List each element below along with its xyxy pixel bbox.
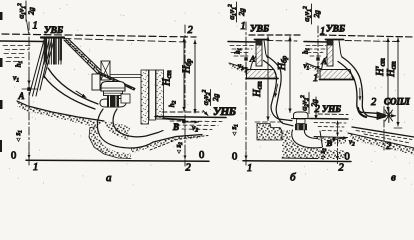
velocity head fraction fig v intake — [302, 4, 321, 24]
point B fig a — [182, 120, 186, 124]
z2 label fig b — [319, 148, 329, 155]
svg-text:Hбр: Hбр — [277, 55, 289, 71]
foundation stipple under powerhouse fig a — [104, 121, 130, 140]
tailwater energy line (dashed) fig a — [162, 111, 203, 113]
UNB water line fig b — [310, 118, 348, 121]
svg-text:2g: 2g — [237, 8, 246, 16]
z1 elevation label fig a — [14, 130, 24, 136]
intake base slab fig v — [320, 70, 353, 80]
datum arrowheads fig a — [28, 150, 30, 159]
H'st dimension fig v — [387, 38, 389, 111]
intake tower fig v — [326, 39, 344, 41]
tailrace wall right (stippled) fig a — [156, 70, 164, 119]
section line 1-1 fig b — [245, 22, 247, 165]
svg-text:а: а — [106, 172, 112, 184]
svg-text:A: A — [18, 91, 25, 101]
UVB level dashed extension fig a — [64, 39, 186, 43]
apron slope to powerhouse fig a — [97, 72, 135, 90]
Hst dimension fig v — [397, 38, 399, 126]
z1 label fig b — [230, 124, 240, 130]
foundation stipple blocks fig b — [257, 124, 282, 141]
energy line (dashed) fig b — [249, 34, 301, 36]
intake base slab fig b — [247, 70, 278, 79]
datum line 0-0 fig a — [26, 160, 209, 161]
velocity head fraction a2v2^2/2g fig a — [201, 89, 220, 105]
turbine runner fig a — [107, 95, 119, 108]
downstream face stipple band fig a — [64, 39, 101, 74]
riverbed fig v — [306, 63, 321, 69]
svg-text:v2: v2 — [192, 123, 198, 134]
outlet mouth edge fig b — [320, 131, 323, 147]
datum line 0-0 fig b — [243, 160, 351, 163]
water hatching fig b — [230, 46, 254, 57]
tick at Hst arrow fig v — [394, 127, 402, 129]
svg-text:1: 1 — [241, 21, 246, 32]
velocity head fraction a2 fig b — [300, 93, 319, 114]
svg-text:0: 0 — [199, 150, 204, 161]
jet star fig v — [384, 109, 396, 123]
machine hall roof lines fig a — [111, 75, 142, 78]
v1 arrow fig a — [28, 74, 30, 85]
penstock in dam fig a — [44, 68, 98, 109]
penstock fig b — [267, 56, 293, 126]
headwater line fig v — [304, 41, 329, 44]
tick at H'st arrow fig v — [385, 112, 392, 114]
nozzle cone fig v — [377, 112, 386, 120]
svg-text:Hст: Hст — [252, 81, 264, 97]
water hatching upstream fig a — [3, 46, 30, 62]
UVB level dashed fig v — [345, 41, 399, 42]
svg-text:z1: z1 — [14, 130, 24, 136]
svg-text:1: 1 — [247, 163, 252, 174]
draft tube fig b — [292, 130, 322, 148]
svg-text:α1v12: α1v12 — [227, 4, 238, 20]
riverbed stipple band fig a — [17, 101, 97, 127]
flow arrow in penstock fig b — [275, 84, 278, 97]
turbine unit fig b — [294, 112, 309, 119]
section line 2-2 lower fig b — [337, 139, 339, 166]
svg-text:2: 2 — [188, 25, 194, 36]
Hbr dimension fig b — [289, 37, 291, 113]
headwater surface line fig a — [0, 40, 44, 43]
stipple under draft tube fig a — [131, 135, 202, 154]
arrow from energy line to UNB fig a — [203, 111, 208, 116]
svg-text:α2v22: α2v22 — [201, 89, 212, 105]
v2 arrow fig a — [187, 121, 199, 123]
svg-text:2g: 2g — [312, 10, 321, 18]
svg-text:A: A — [249, 55, 255, 64]
svg-text:в: в — [391, 172, 396, 184]
point A fig b — [244, 57, 247, 60]
tailrace wall left (stippled) fig a — [141, 70, 149, 124]
Hbr dimension fig a — [194, 40, 196, 113]
stipple under bed fig v — [348, 133, 414, 155]
gate slot fig a — [149, 70, 156, 120]
svg-text:1: 1 — [33, 21, 38, 32]
energy line (dashed) fig v — [320, 35, 414, 37]
turbine axis dashes fig b — [255, 121, 284, 123]
upstream riverbed line fig a — [17, 101, 104, 121]
svg-text:B: B — [172, 122, 179, 132]
svg-text:Hбр: Hбр — [182, 58, 194, 74]
scan speckle — [2, 5, 412, 185]
svg-text:z1: z1 — [230, 124, 240, 130]
section line 1-1 fig a — [28, 22, 30, 165]
point A fig v — [316, 57, 319, 60]
riverbed dotted line right fig a — [150, 136, 208, 151]
svg-text:α1v12: α1v12 — [302, 6, 313, 22]
v1 arrow fig v — [317, 62, 319, 70]
section tick at 2 fig b — [315, 97, 317, 119]
svg-text:2g: 2g — [211, 94, 220, 102]
generator box fig a — [104, 91, 123, 96]
point A fig a — [27, 87, 31, 91]
gate hoist tower on dam face fig a — [101, 61, 110, 80]
velocity head fraction a1v1^2/2g fig a — [17, 1, 36, 29]
svg-text:B: B — [326, 138, 333, 148]
velocity head fraction fig b intake — [227, 2, 246, 22]
dam upstream face fan lines fig a — [29, 40, 54, 96]
svg-text:h2: h2 — [167, 101, 178, 108]
svg-text:2g: 2g — [27, 7, 36, 15]
energy line (dashed) fig a — [2, 34, 196, 37]
svg-text:h1: h1 — [302, 48, 312, 54]
dam crest gate columns fig a — [43, 39, 63, 65]
tailwater surface fig v — [352, 127, 414, 137]
water hatching fig v — [306, 46, 326, 57]
dam crest fig a — [41, 36, 64, 38]
svg-text:v1: v1 — [13, 73, 19, 84]
tailwater hatching fig b — [314, 123, 346, 132]
svg-text:2: 2 — [371, 97, 377, 108]
tailwater bed fig v — [348, 133, 414, 148]
section line 1-1 fig v — [317, 26, 319, 78]
svg-text:1: 1 — [320, 26, 325, 37]
svg-text:α1v12: α1v12 — [17, 3, 28, 19]
svg-text:1: 1 — [33, 162, 38, 173]
svg-text:УВБ: УВБ — [44, 26, 63, 36]
outlet roof line fig a — [163, 119, 184, 120]
UNB water line fig a — [155, 117, 226, 118]
Hst dimension fig a — [183, 38, 185, 111]
dam downstream face fig a — [64, 39, 101, 73]
svg-text:H′ст: H′ст — [375, 58, 387, 77]
riverbed fig b — [229, 63, 249, 70]
penstock fig v — [342, 57, 377, 118]
svg-text:1: 1 — [313, 73, 318, 84]
tail energy dashes fig b — [318, 113, 348, 116]
v2 arrow fig b — [337, 138, 348, 140]
svg-text:УНБ: УНБ — [213, 106, 236, 118]
svg-text:z2: z2 — [175, 142, 185, 149]
svg-text:2g: 2g — [310, 99, 319, 107]
svg-text:УНБ: УНБ — [322, 104, 341, 114]
pier block fig a — [92, 74, 100, 90]
lead line below fraction fig a — [27, 20, 29, 33]
page edge smudges — [0, 12, 3, 152]
svg-text:2: 2 — [339, 163, 345, 174]
tailwater hatching fig a — [170, 121, 222, 130]
v1 arrow fig b — [245, 62, 247, 71]
scroll case wings fig a — [100, 98, 126, 107]
UVB level dashed fig b — [267, 40, 297, 43]
svg-text:УВБ: УВБ — [250, 25, 269, 35]
svg-text:УВБ: УВБ — [326, 25, 345, 35]
heavy bend shading fig v — [358, 108, 366, 117]
svg-text:α2v22: α2v22 — [300, 95, 311, 111]
z2 elevation label fig a — [175, 142, 185, 149]
svg-text:A: A — [321, 57, 327, 66]
svg-text:0: 0 — [232, 152, 237, 163]
flow arrow in penstock fig v — [359, 88, 361, 100]
draft tube fig a — [97, 109, 202, 148]
svg-text:0: 0 — [11, 151, 16, 162]
Hst dimension fig b — [267, 37, 269, 121]
section line 2-2 fig a — [184, 25, 186, 166]
datum arrowheads fig b — [245, 151, 247, 159]
svg-text:2: 2 — [186, 163, 192, 174]
point B fig b — [332, 137, 336, 141]
tailwater hatching fig v — [356, 131, 412, 144]
svg-text:0: 0 — [345, 152, 350, 163]
headwater line fig b — [228, 41, 257, 44]
h dimension at tail fig b — [337, 121, 339, 136]
powerhouse floor box fig a — [121, 94, 130, 103]
section line 2-2 fig v — [383, 107, 385, 151]
intake tower fig b — [255, 39, 269, 41]
generator dome fig a — [101, 82, 125, 92]
svg-text:б: б — [290, 172, 296, 184]
